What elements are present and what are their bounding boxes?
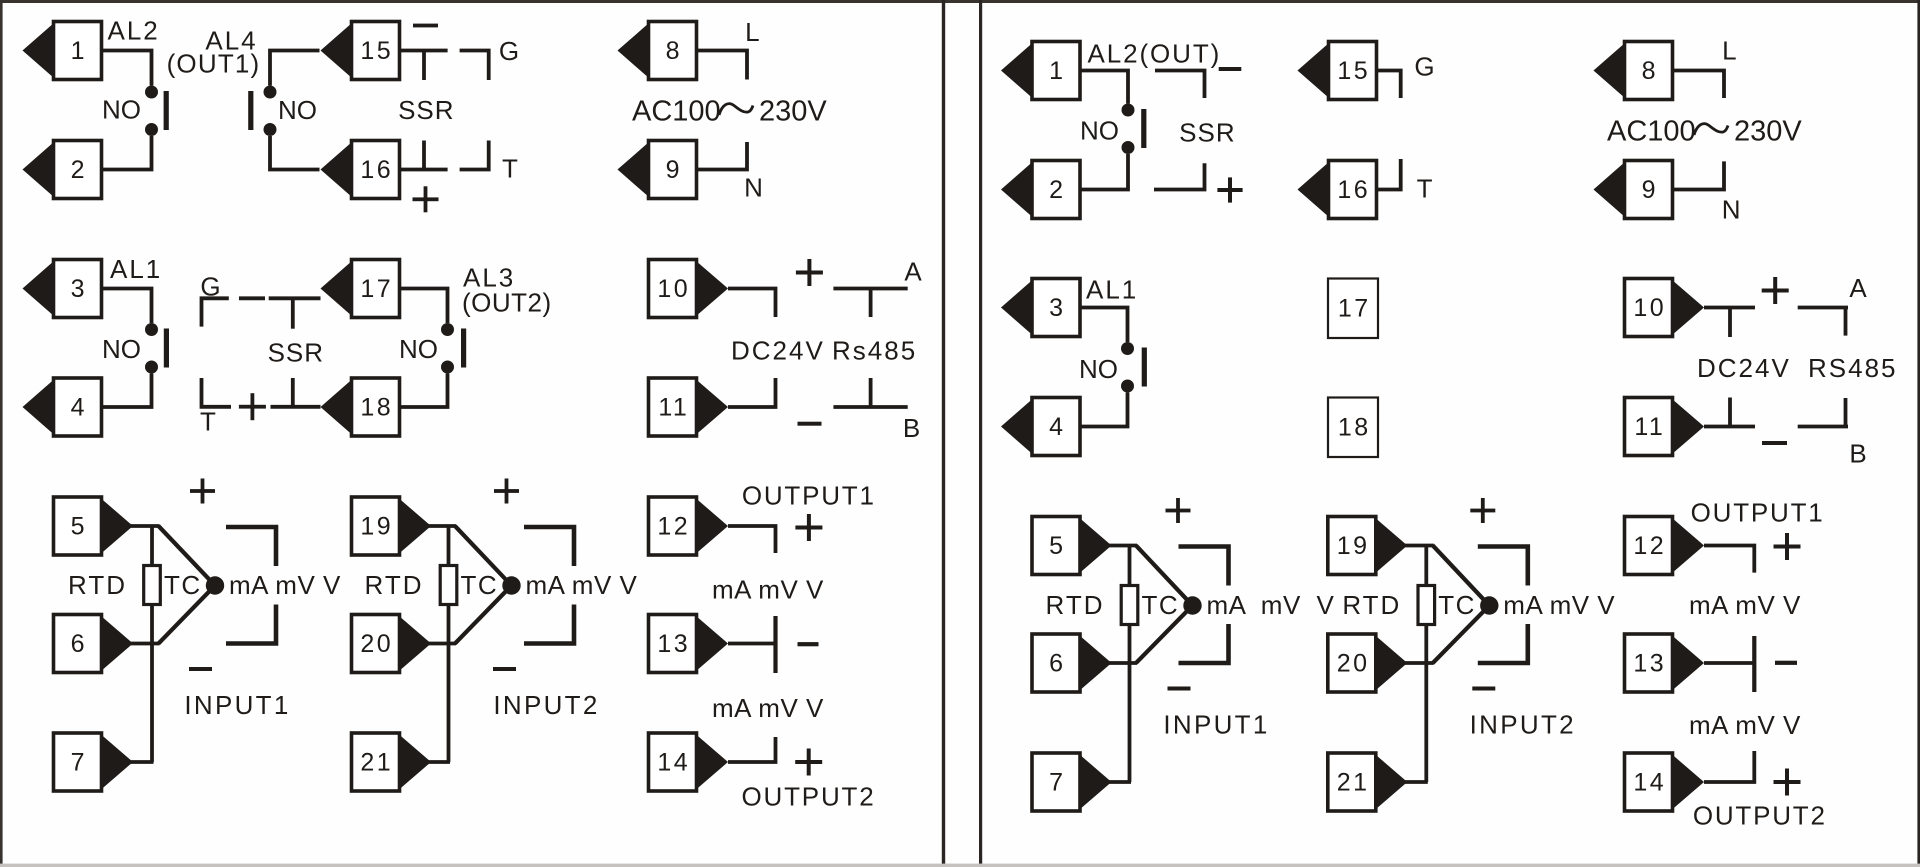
wire RS485 A lead right xyxy=(1798,306,1848,310)
svg-text:230V: 230V xyxy=(1734,115,1802,147)
contact dot lower AL1 xyxy=(145,361,158,374)
wire contact to terminal 2 xyxy=(102,136,152,170)
contact dot lower AL2 right xyxy=(1122,141,1135,154)
svg-text:5: 5 xyxy=(1049,532,1065,560)
svg-text:3: 3 xyxy=(1049,294,1065,322)
terminal 6 right panel xyxy=(1032,634,1112,692)
svg-text:SSR: SSR xyxy=(1179,118,1235,148)
terminal 18 right panel xyxy=(1328,398,1378,458)
svg-text:9: 9 xyxy=(666,156,682,184)
svg-text:17: 17 xyxy=(1338,295,1371,323)
terminal 6 xyxy=(54,615,134,673)
svg-text:20: 20 xyxy=(1337,649,1370,677)
wire TC diagonal lower INPUT1 right xyxy=(1136,606,1193,664)
svg-text:NO: NO xyxy=(1079,354,1118,384)
svg-text:3: 3 xyxy=(71,275,87,303)
terminal 15 xyxy=(321,22,400,80)
wire terminal 15 G lead xyxy=(1377,71,1401,99)
polarity minus output common right xyxy=(1775,661,1797,665)
terminal 19 xyxy=(352,497,432,555)
contact dot upper AL2 right xyxy=(1122,104,1135,117)
svg-text:6: 6 xyxy=(71,630,87,658)
terminal 18 xyxy=(321,378,400,436)
dash SSR1 upper corner xyxy=(460,51,489,81)
svg-text:1: 1 xyxy=(71,37,87,65)
svg-text:16: 16 xyxy=(1337,176,1370,204)
tick Rs485 A xyxy=(869,289,873,318)
contact dot lower AL4 xyxy=(264,123,277,136)
resistor RTD symbol INPUT1 right xyxy=(1121,586,1138,625)
svg-text:4: 4 xyxy=(1049,413,1065,441)
polarity minus DC24V right xyxy=(1762,441,1787,445)
svg-text:SSR: SSR xyxy=(398,95,454,125)
svg-text:T: T xyxy=(1417,174,1433,204)
wire SSR2 to terminal 17 xyxy=(269,296,321,300)
svg-text:10: 10 xyxy=(1633,294,1666,322)
polarity minus INPUT2 right xyxy=(1472,687,1495,691)
svg-text:13: 13 xyxy=(1633,649,1666,677)
right panel right border xyxy=(1917,0,1920,864)
wire terminal 12 plus lead right xyxy=(1704,546,1754,573)
tick Rs485 B xyxy=(869,378,873,407)
svg-text:(OUT2): (OUT2) xyxy=(462,288,552,318)
wire stub terminal upper INPUT2 left xyxy=(427,524,457,528)
outer frame left bar xyxy=(0,0,3,867)
dash SSR right upper xyxy=(1155,71,1205,99)
polarity plus SSR1 xyxy=(413,186,439,212)
svg-text:RTD: RTD xyxy=(68,570,127,600)
svg-text:RTD: RTD xyxy=(1046,590,1105,620)
terminal 7 xyxy=(54,733,134,791)
svg-text:13: 13 xyxy=(657,630,690,658)
svg-text:mA mV V: mA mV V xyxy=(229,570,341,600)
tilde AC range xyxy=(719,104,753,115)
terminal 16 xyxy=(321,141,400,199)
terminal 13 right panel xyxy=(1625,634,1705,692)
terminal 9 right panel xyxy=(1594,161,1673,219)
svg-text:AL1: AL1 xyxy=(1086,275,1138,305)
contact dot upper AL1 xyxy=(145,323,158,336)
svg-text:SSR: SSR xyxy=(268,338,324,368)
terminal 1 xyxy=(23,22,102,80)
svg-text:T: T xyxy=(502,154,518,184)
tick SSR1 upper xyxy=(422,51,426,81)
wire RTD vertical INPUT1 right xyxy=(1128,546,1132,783)
wire terminal 15 to contact xyxy=(270,51,320,86)
svg-text:AC100: AC100 xyxy=(1607,115,1696,147)
corner T SSR2 xyxy=(202,378,232,407)
svg-text:12: 12 xyxy=(1633,532,1666,560)
svg-text:DC24V: DC24V xyxy=(731,336,825,366)
wire Rs485 A lead xyxy=(833,287,907,291)
svg-text:NO: NO xyxy=(102,334,141,364)
wire terminal 11 minus lead xyxy=(728,378,776,407)
wire terminal 17 to contact xyxy=(400,289,448,324)
wire terminal 15 SSR lead xyxy=(400,49,448,53)
contact dot lower AL3 xyxy=(441,361,454,374)
wire TC diagonal upper INPUT2 left xyxy=(455,526,512,586)
terminal 7 right panel xyxy=(1032,753,1112,811)
wire TC diagonal lower INPUT2 left xyxy=(455,586,512,644)
svg-text:19: 19 xyxy=(1337,532,1370,560)
svg-text:5: 5 xyxy=(71,512,87,540)
svg-text:AL1: AL1 xyxy=(110,254,162,284)
svg-text:18: 18 xyxy=(1338,414,1371,442)
wire terminal 13 lead xyxy=(728,642,776,646)
terminal 8 xyxy=(618,22,697,80)
terminal 19 right panel xyxy=(1328,517,1408,575)
svg-text:Rs485: Rs485 xyxy=(832,336,917,366)
wire terminal 14 plus lead right xyxy=(1704,751,1754,782)
svg-text:mA mV V: mA mV V xyxy=(712,693,824,723)
terminal 9 xyxy=(618,141,697,199)
bracket mA mV V INPUT1 right xyxy=(1179,547,1229,664)
corner G SSR2 xyxy=(202,298,229,326)
svg-text:10: 10 xyxy=(657,275,690,303)
tick SSR2 upper xyxy=(291,298,295,328)
tick DC24V minus right xyxy=(1728,398,1732,427)
wire stub terminal lower INPUT1 left xyxy=(130,760,154,764)
wire terminal 10 plus lead right xyxy=(1704,306,1755,310)
svg-text:INPUT2: INPUT2 xyxy=(493,690,599,720)
svg-text:OUTPUT1: OUTPUT1 xyxy=(1691,498,1825,528)
svg-text:19: 19 xyxy=(360,512,393,540)
svg-text:OUTPUT1: OUTPUT1 xyxy=(742,480,876,510)
wire contact to terminal 18 xyxy=(400,374,448,408)
tick DC24V plus right xyxy=(1728,308,1732,338)
terminal 16 right panel xyxy=(1298,161,1377,219)
svg-text:11: 11 xyxy=(658,393,689,421)
wire stub terminal upper INPUT1 left xyxy=(130,524,160,528)
terminal 5 right panel xyxy=(1032,517,1112,575)
svg-text:G: G xyxy=(499,36,519,66)
terminal 1 right panel xyxy=(1001,42,1080,100)
terminal 11 right panel xyxy=(1625,398,1705,456)
svg-text:A: A xyxy=(1849,273,1867,303)
polarity minus DC24V xyxy=(798,422,822,426)
terminal 10 right panel xyxy=(1625,279,1705,337)
terminal 20 xyxy=(352,615,432,673)
tilde AC range right xyxy=(1694,124,1728,135)
terminal 17 xyxy=(321,260,400,318)
terminal 21 right panel xyxy=(1328,753,1408,811)
contact bar AL4 xyxy=(248,91,253,130)
svg-text:2: 2 xyxy=(1049,176,1065,204)
svg-text:mA mV V: mA mV V xyxy=(526,570,638,600)
svg-text:AL2(OUT): AL2(OUT) xyxy=(1088,39,1222,69)
contact bar AL2 xyxy=(164,91,169,130)
svg-text:N: N xyxy=(744,173,763,203)
svg-text:NO: NO xyxy=(102,95,141,125)
junction dot INPUT1 right xyxy=(1183,596,1201,614)
terminal 11 xyxy=(649,378,729,436)
contact dot upper AL3 xyxy=(441,323,454,336)
resistor RTD symbol INPUT2 right xyxy=(1418,586,1435,625)
wire terminal 11 minus lead right xyxy=(1704,425,1755,429)
svg-text:RTD: RTD xyxy=(1342,590,1401,620)
dash SSR right lower xyxy=(1154,163,1205,189)
svg-text:18: 18 xyxy=(360,393,393,421)
svg-text:14: 14 xyxy=(657,748,690,776)
svg-text:230V: 230V xyxy=(759,96,827,128)
svg-text:8: 8 xyxy=(1642,57,1658,85)
contact dot lower AL1 right xyxy=(1121,380,1134,393)
svg-text:mA mV V: mA mV V xyxy=(1689,590,1801,620)
svg-text:OUTPUT2: OUTPUT2 xyxy=(742,782,876,812)
terminal 10 xyxy=(649,260,729,318)
terminal 3 right panel xyxy=(1001,279,1080,337)
svg-text:20: 20 xyxy=(360,630,393,658)
svg-text:(OUT1): (OUT1) xyxy=(167,49,261,79)
polarity plus INPUT2 left xyxy=(494,479,519,504)
svg-text:AL2: AL2 xyxy=(108,16,160,46)
terminal 5 xyxy=(54,497,134,555)
wire stub terminal lower INPUT2 left xyxy=(427,760,451,764)
svg-text:L: L xyxy=(745,17,759,47)
terminal 20 right panel xyxy=(1328,634,1408,692)
wire terminal 9 N lead xyxy=(697,142,748,170)
wire TC diagonal upper INPUT1 left xyxy=(159,526,216,586)
polarity plus INPUT1 left xyxy=(190,479,215,504)
contact dot lower AL2 xyxy=(145,123,158,136)
terminal 15 right panel xyxy=(1298,42,1377,100)
wire TC diagonal lower INPUT1 left xyxy=(159,586,216,644)
svg-text:14: 14 xyxy=(1633,768,1666,796)
wire stub terminal middle INPUT2 right xyxy=(1404,661,1434,665)
svg-text:4: 4 xyxy=(71,393,87,421)
wire RTD vertical INPUT1 left xyxy=(150,526,154,762)
svg-text:7: 7 xyxy=(1049,768,1065,796)
polarity plus OUTPUT1 xyxy=(795,514,822,541)
wire terminal 1 to contact right xyxy=(1080,71,1128,104)
svg-text:11: 11 xyxy=(1634,413,1665,441)
svg-text:NO: NO xyxy=(1080,115,1119,145)
svg-text:15: 15 xyxy=(360,37,393,65)
polarity minus SSR right xyxy=(1219,67,1242,71)
wire terminal 13 lead right xyxy=(1704,661,1754,665)
bracket mA mV V INPUT2 right xyxy=(1478,547,1528,664)
polarity plus SSR right xyxy=(1217,177,1242,202)
polarity plus OUTPUT2 right xyxy=(1774,769,1801,796)
svg-text:7: 7 xyxy=(71,748,87,776)
junction dot INPUT1 left xyxy=(206,576,224,594)
wire RTD vertical INPUT2 left xyxy=(447,526,451,762)
svg-text:17: 17 xyxy=(360,275,393,303)
wire RS485 B lead right xyxy=(1798,425,1848,429)
contact dot upper AL2 xyxy=(145,86,158,99)
corner RS485 B right xyxy=(1844,398,1848,427)
svg-text:B: B xyxy=(903,413,920,443)
bracket mA mV V INPUT1 left xyxy=(226,527,276,644)
tick SSR2 lower xyxy=(291,378,295,407)
resistor RTD symbol INPUT2 left xyxy=(440,566,457,605)
terminal 4 right panel xyxy=(1001,398,1080,456)
polarity plus INPUT1 right xyxy=(1166,498,1191,523)
wire terminal 9 N lead right xyxy=(1673,161,1725,189)
terminal 13 xyxy=(649,615,729,673)
svg-text:TC: TC xyxy=(1438,590,1476,620)
svg-text:mA mV V: mA mV V xyxy=(1207,590,1335,620)
wire terminal 8 L lead xyxy=(697,51,748,80)
contact bar AL2 right xyxy=(1141,109,1146,148)
svg-text:9: 9 xyxy=(1642,176,1658,204)
wire TC diagonal upper INPUT2 right xyxy=(1433,546,1490,606)
contact dot upper AL1 right xyxy=(1121,342,1134,355)
svg-text:2: 2 xyxy=(71,156,87,184)
wire terminal 12 plus lead xyxy=(728,526,776,553)
terminal 14 right panel xyxy=(1625,753,1705,811)
svg-text:AC100: AC100 xyxy=(632,96,721,128)
svg-text:N: N xyxy=(1722,195,1741,225)
svg-text:1: 1 xyxy=(1049,57,1065,85)
terminal 3 xyxy=(23,260,102,318)
svg-text:8: 8 xyxy=(666,37,682,65)
svg-text:DC24V: DC24V xyxy=(1697,353,1791,383)
dash SSR2 upper xyxy=(239,296,265,300)
svg-text:NO: NO xyxy=(278,95,317,125)
svg-text:mA mV V: mA mV V xyxy=(1689,710,1801,740)
wire contact to terminal 2 right xyxy=(1080,154,1128,190)
junction dot INPUT2 left xyxy=(502,576,520,594)
wire terminal 3 to contact xyxy=(102,289,152,324)
terminal 12 right panel xyxy=(1625,517,1705,575)
wire stub terminal lower INPUT1 right xyxy=(1108,780,1132,784)
wire terminal 8 L lead right xyxy=(1673,71,1725,99)
wire contact to terminal 4 right xyxy=(1080,393,1128,427)
polarity plus OUTPUT2 xyxy=(795,749,822,776)
terminal 21 xyxy=(352,733,432,791)
wire SSR2 lower to terminal 18 xyxy=(271,405,321,409)
svg-text:mA mV V: mA mV V xyxy=(712,575,824,605)
tick SSR1 lower xyxy=(422,141,426,170)
svg-text:NO: NO xyxy=(399,334,438,364)
outer frame top bar xyxy=(0,0,1920,3)
wire terminal 16 SSR lead xyxy=(400,168,448,172)
wire terminal 3 to contact right xyxy=(1080,308,1128,343)
wire stub terminal middle INPUT2 left xyxy=(427,642,457,646)
svg-text:OUTPUT2: OUTPUT2 xyxy=(1693,801,1827,831)
terminal 14 xyxy=(649,733,729,791)
bracket mA mV V INPUT2 left xyxy=(524,527,574,644)
terminal 4 xyxy=(23,378,102,436)
wire terminal 16 T lead xyxy=(1377,159,1401,190)
resistor RTD symbol INPUT1 left xyxy=(144,566,161,605)
svg-text:G: G xyxy=(1414,52,1434,82)
polarity plus SSR2 xyxy=(239,393,266,420)
left panel right border xyxy=(942,0,945,864)
svg-text:T: T xyxy=(200,407,216,437)
wire terminal 10 plus lead xyxy=(728,289,776,318)
svg-text:12: 12 xyxy=(657,512,690,540)
terminal 2 xyxy=(23,141,102,199)
wire RTD vertical INPUT2 right xyxy=(1424,546,1428,783)
polarity plus DC24V right xyxy=(1762,277,1789,304)
contact dot upper AL4 xyxy=(264,86,277,99)
polarity minus SSR1 xyxy=(413,24,438,28)
polarity minus INPUT1 right xyxy=(1168,687,1191,691)
wire TC diagonal upper INPUT1 right xyxy=(1136,546,1193,606)
terminal 2 right panel xyxy=(1001,161,1080,219)
svg-text:INPUT1: INPUT1 xyxy=(184,690,290,720)
svg-text:L: L xyxy=(1722,36,1736,66)
wire stub terminal lower INPUT2 right xyxy=(1404,780,1428,784)
svg-text:RTD: RTD xyxy=(365,570,424,600)
wire stub terminal middle INPUT1 left xyxy=(130,642,160,646)
svg-text:21: 21 xyxy=(360,748,393,776)
svg-text:16: 16 xyxy=(360,156,393,184)
svg-text:RS485: RS485 xyxy=(1808,353,1898,383)
polarity minus INPUT1 left xyxy=(189,667,212,671)
wire contact to terminal 16 xyxy=(270,136,320,170)
svg-text:INPUT1: INPUT1 xyxy=(1163,710,1269,740)
wire terminal 14 plus lead xyxy=(728,737,776,762)
polarity plus INPUT2 right xyxy=(1470,498,1495,523)
wire TC diagonal lower INPUT2 right xyxy=(1433,606,1490,664)
svg-text:TC: TC xyxy=(164,570,202,600)
svg-text:15: 15 xyxy=(1337,57,1370,85)
wire stub terminal upper INPUT1 right xyxy=(1108,544,1138,548)
svg-text:mA mV V: mA mV V xyxy=(1503,590,1615,620)
svg-text:B: B xyxy=(1849,439,1866,469)
svg-text:6: 6 xyxy=(1049,649,1065,677)
wire contact to terminal 4 xyxy=(102,374,152,408)
bar terminal 13 common right xyxy=(1752,636,1756,692)
outer frame bottom bar xyxy=(0,864,1920,867)
contact bar AL1 right xyxy=(1142,348,1147,387)
polarity minus output common left xyxy=(798,642,819,646)
contact bar AL3 xyxy=(461,329,466,368)
terminal 8 right panel xyxy=(1594,42,1673,100)
polarity plus OUTPUT1 right xyxy=(1774,533,1801,560)
svg-text:21: 21 xyxy=(1337,768,1370,796)
wire stub terminal middle INPUT1 right xyxy=(1108,661,1138,665)
svg-text:TC: TC xyxy=(461,570,499,600)
wire terminal 1 to contact xyxy=(102,51,152,86)
contact bar AL1 xyxy=(164,329,169,368)
junction dot INPUT2 right xyxy=(1480,596,1498,614)
svg-text:A: A xyxy=(904,257,922,287)
bar terminal 13 common xyxy=(773,616,777,673)
wire Rs485 B lead xyxy=(833,405,907,409)
svg-text:TC: TC xyxy=(1142,590,1180,620)
corner RS485 A right xyxy=(1844,308,1848,336)
svg-text:INPUT2: INPUT2 xyxy=(1470,710,1576,740)
terminal 17 right panel xyxy=(1328,279,1378,339)
dash SSR1 lower corner xyxy=(460,141,489,170)
polarity minus INPUT2 left xyxy=(493,667,516,671)
wire stub terminal upper INPUT2 right xyxy=(1404,544,1434,548)
right panel left border xyxy=(979,0,982,864)
polarity plus DC24V xyxy=(796,259,823,286)
terminal 12 xyxy=(649,497,729,555)
